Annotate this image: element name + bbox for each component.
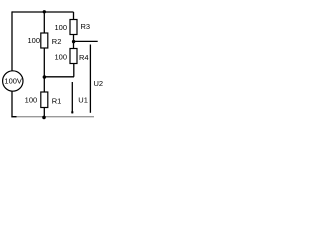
resistor R4 box: [70, 49, 77, 64]
svg-text:U1: U1: [78, 96, 88, 105]
U1 measurement line: [71, 82, 73, 113]
resistor R2 box: [41, 33, 48, 48]
svg-text:100: 100: [25, 95, 38, 104]
wire R1 bottom lead: [43, 108, 45, 117]
svg-text:R1: R1: [52, 97, 62, 106]
wire left lower: [11, 91, 13, 117]
svg-text:100: 100: [54, 23, 67, 32]
node dot right junction: [72, 40, 75, 43]
svg-text:U2: U2: [94, 79, 104, 88]
resistor R1 box: [41, 92, 48, 108]
svg-text:100: 100: [54, 52, 67, 61]
U2 measurement line: [89, 45, 91, 113]
wire R3 top lead: [73, 12, 75, 20]
wire R4 bottom lead: [73, 64, 75, 77]
wire R3 to node: [73, 35, 75, 49]
svg-text:R3: R3: [81, 22, 91, 31]
wire right horizontal: [74, 40, 98, 42]
svg-text:R4: R4: [79, 53, 89, 62]
svg-text:R2: R2: [52, 37, 62, 46]
wire bottom grey: [12, 116, 94, 118]
resistor R3 box: [70, 20, 77, 35]
voltage source V1 circle: [3, 71, 23, 91]
node dot top junction: [43, 10, 46, 13]
wire R2 top lead: [43, 12, 45, 33]
wire left upper: [11, 11, 13, 71]
node dot bottom junction: [42, 116, 46, 120]
node dot middle junction: [43, 75, 47, 79]
svg-text:100: 100: [27, 36, 40, 45]
wire node to R4 horizontal: [44, 76, 74, 78]
wire R2-R1 middle: [43, 48, 45, 92]
wire bottom left black corner: [11, 116, 16, 118]
svg-text:100V: 100V: [4, 77, 22, 86]
wire top: [12, 11, 74, 13]
